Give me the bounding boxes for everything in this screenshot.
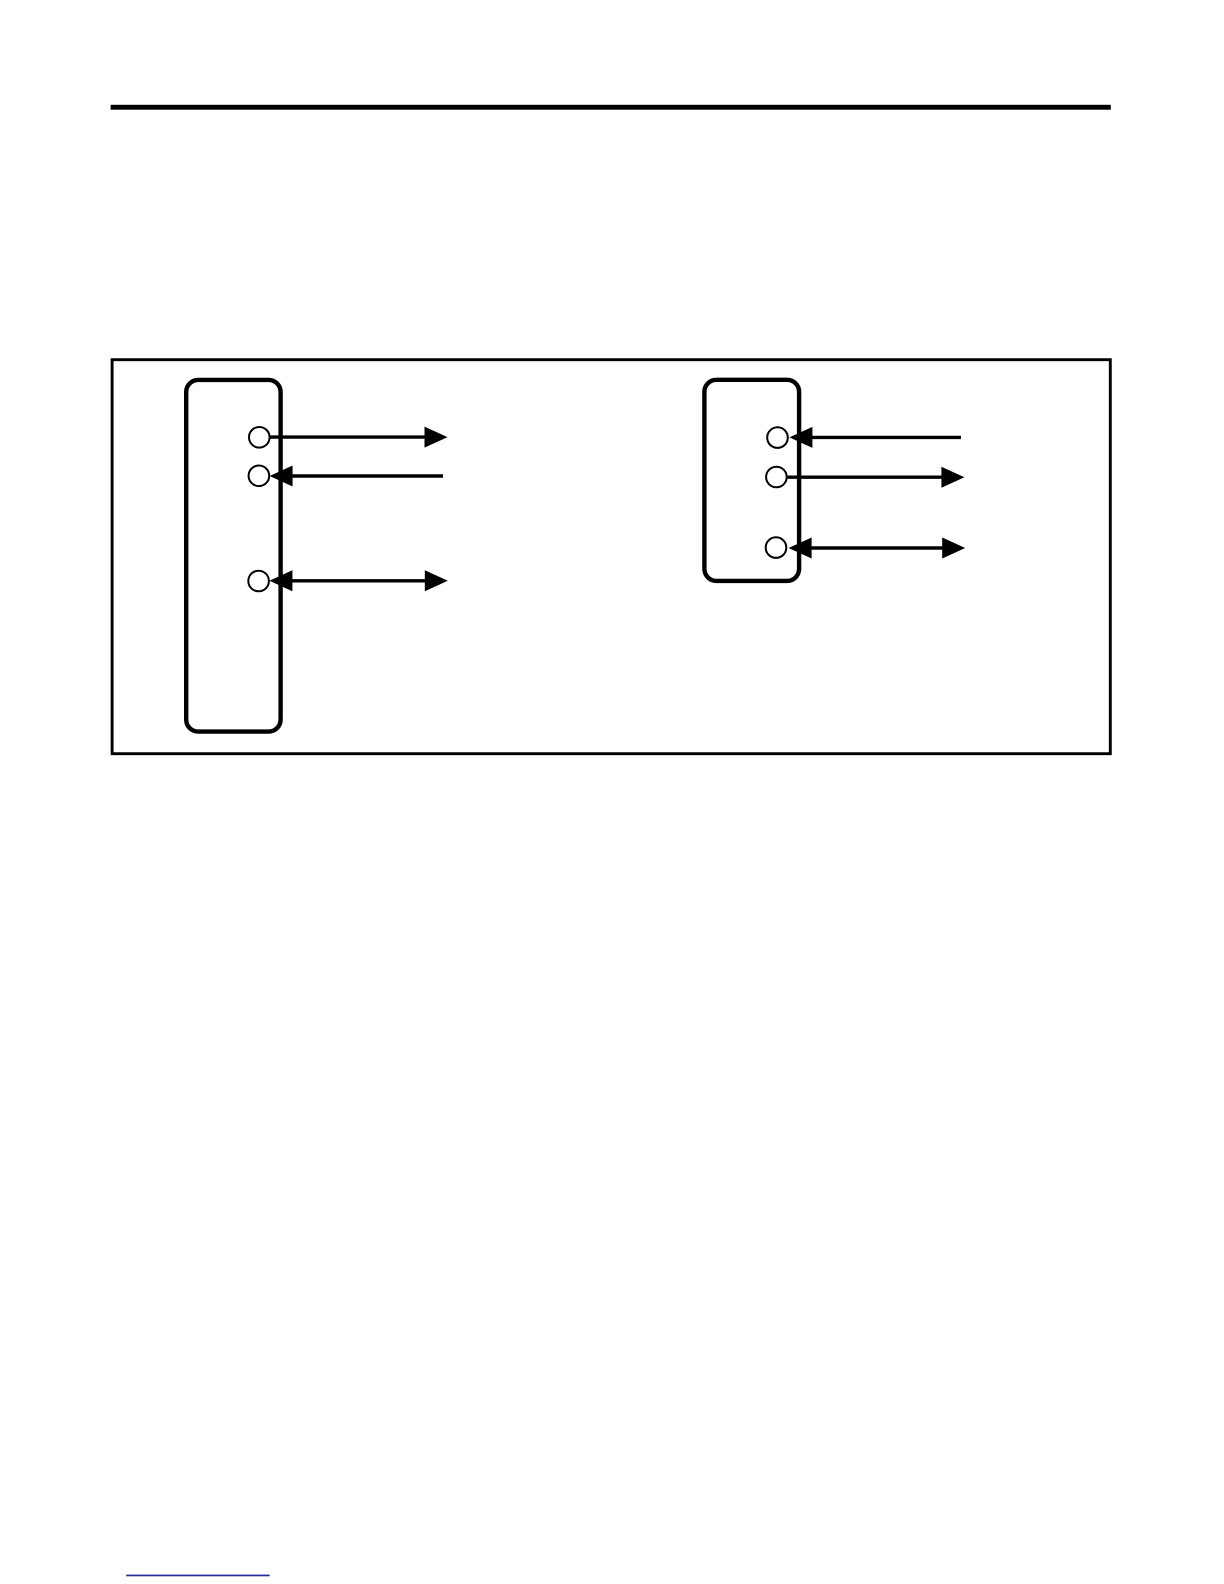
connector J2 pin 3 [766, 537, 787, 558]
connector J1 pin 1 [249, 427, 270, 448]
wire J1 pin 2 input [270, 466, 443, 487]
connector J1 body [186, 380, 280, 732]
connector J1 pin 2 [249, 466, 270, 487]
diagram frame [112, 360, 1110, 754]
connector J2 pin 1 [767, 427, 788, 448]
connector J2 body [704, 380, 799, 581]
wire J2 pin 2 output [788, 467, 965, 488]
wire J2 pin 3 bidirectional [789, 538, 966, 559]
footer link underline [126, 1575, 269, 1577]
wire J1 pin 1 output [271, 427, 448, 448]
wire J2 pin 1 input [789, 427, 961, 448]
connector J2 pin 2 [766, 467, 787, 488]
page top rule [111, 105, 1111, 110]
wire J1 pin 3 bidirectional [269, 570, 447, 591]
connector J1 pin 3 [248, 571, 269, 592]
